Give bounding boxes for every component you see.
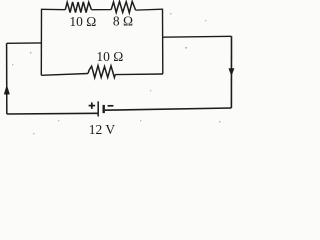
scan speckles (decorative) (12, 13, 221, 134)
svg-text:8 Ω: 8 Ω (113, 14, 133, 29)
wire right outer vertical (230, 36, 232, 108)
resistor R2 8 ohm (top right zigzag) (111, 1, 135, 12)
resistor R1 10 ohm (top left zigzag) (65, 2, 91, 13)
wire between R1 and R2 (92, 9, 112, 11)
svg-text:12 V: 12 V (89, 122, 116, 137)
battery B1 negative plate (short thick) (102, 105, 104, 113)
wire middle-branch right lead (115, 73, 163, 76)
plus label (89, 102, 96, 109)
battery B1 positive plate (long) (97, 101, 99, 116)
arrow current direction up (left wire) (4, 85, 9, 94)
wire right tap horizontal (163, 35, 232, 38)
wire middle-branch left lead (41, 74, 88, 76)
svg-text:10 Ω: 10 Ω (96, 49, 123, 64)
wire bottom right (105, 108, 232, 110)
wire left tap horizontal (7, 42, 42, 44)
wire bottom left (7, 112, 98, 115)
resistor R3 10 ohm (middle zigzag) (88, 66, 115, 78)
wire top-right lead (136, 8, 163, 11)
minus label (108, 105, 114, 107)
arrow current direction down (right wire) (229, 69, 234, 76)
wire inner-box right vertical (162, 9, 164, 74)
svg-text:10 Ω: 10 Ω (69, 14, 96, 29)
wire left outer vertical (6, 43, 8, 114)
wire inner-box left vertical (40, 9, 42, 76)
wire top-left lead (42, 8, 66, 10)
